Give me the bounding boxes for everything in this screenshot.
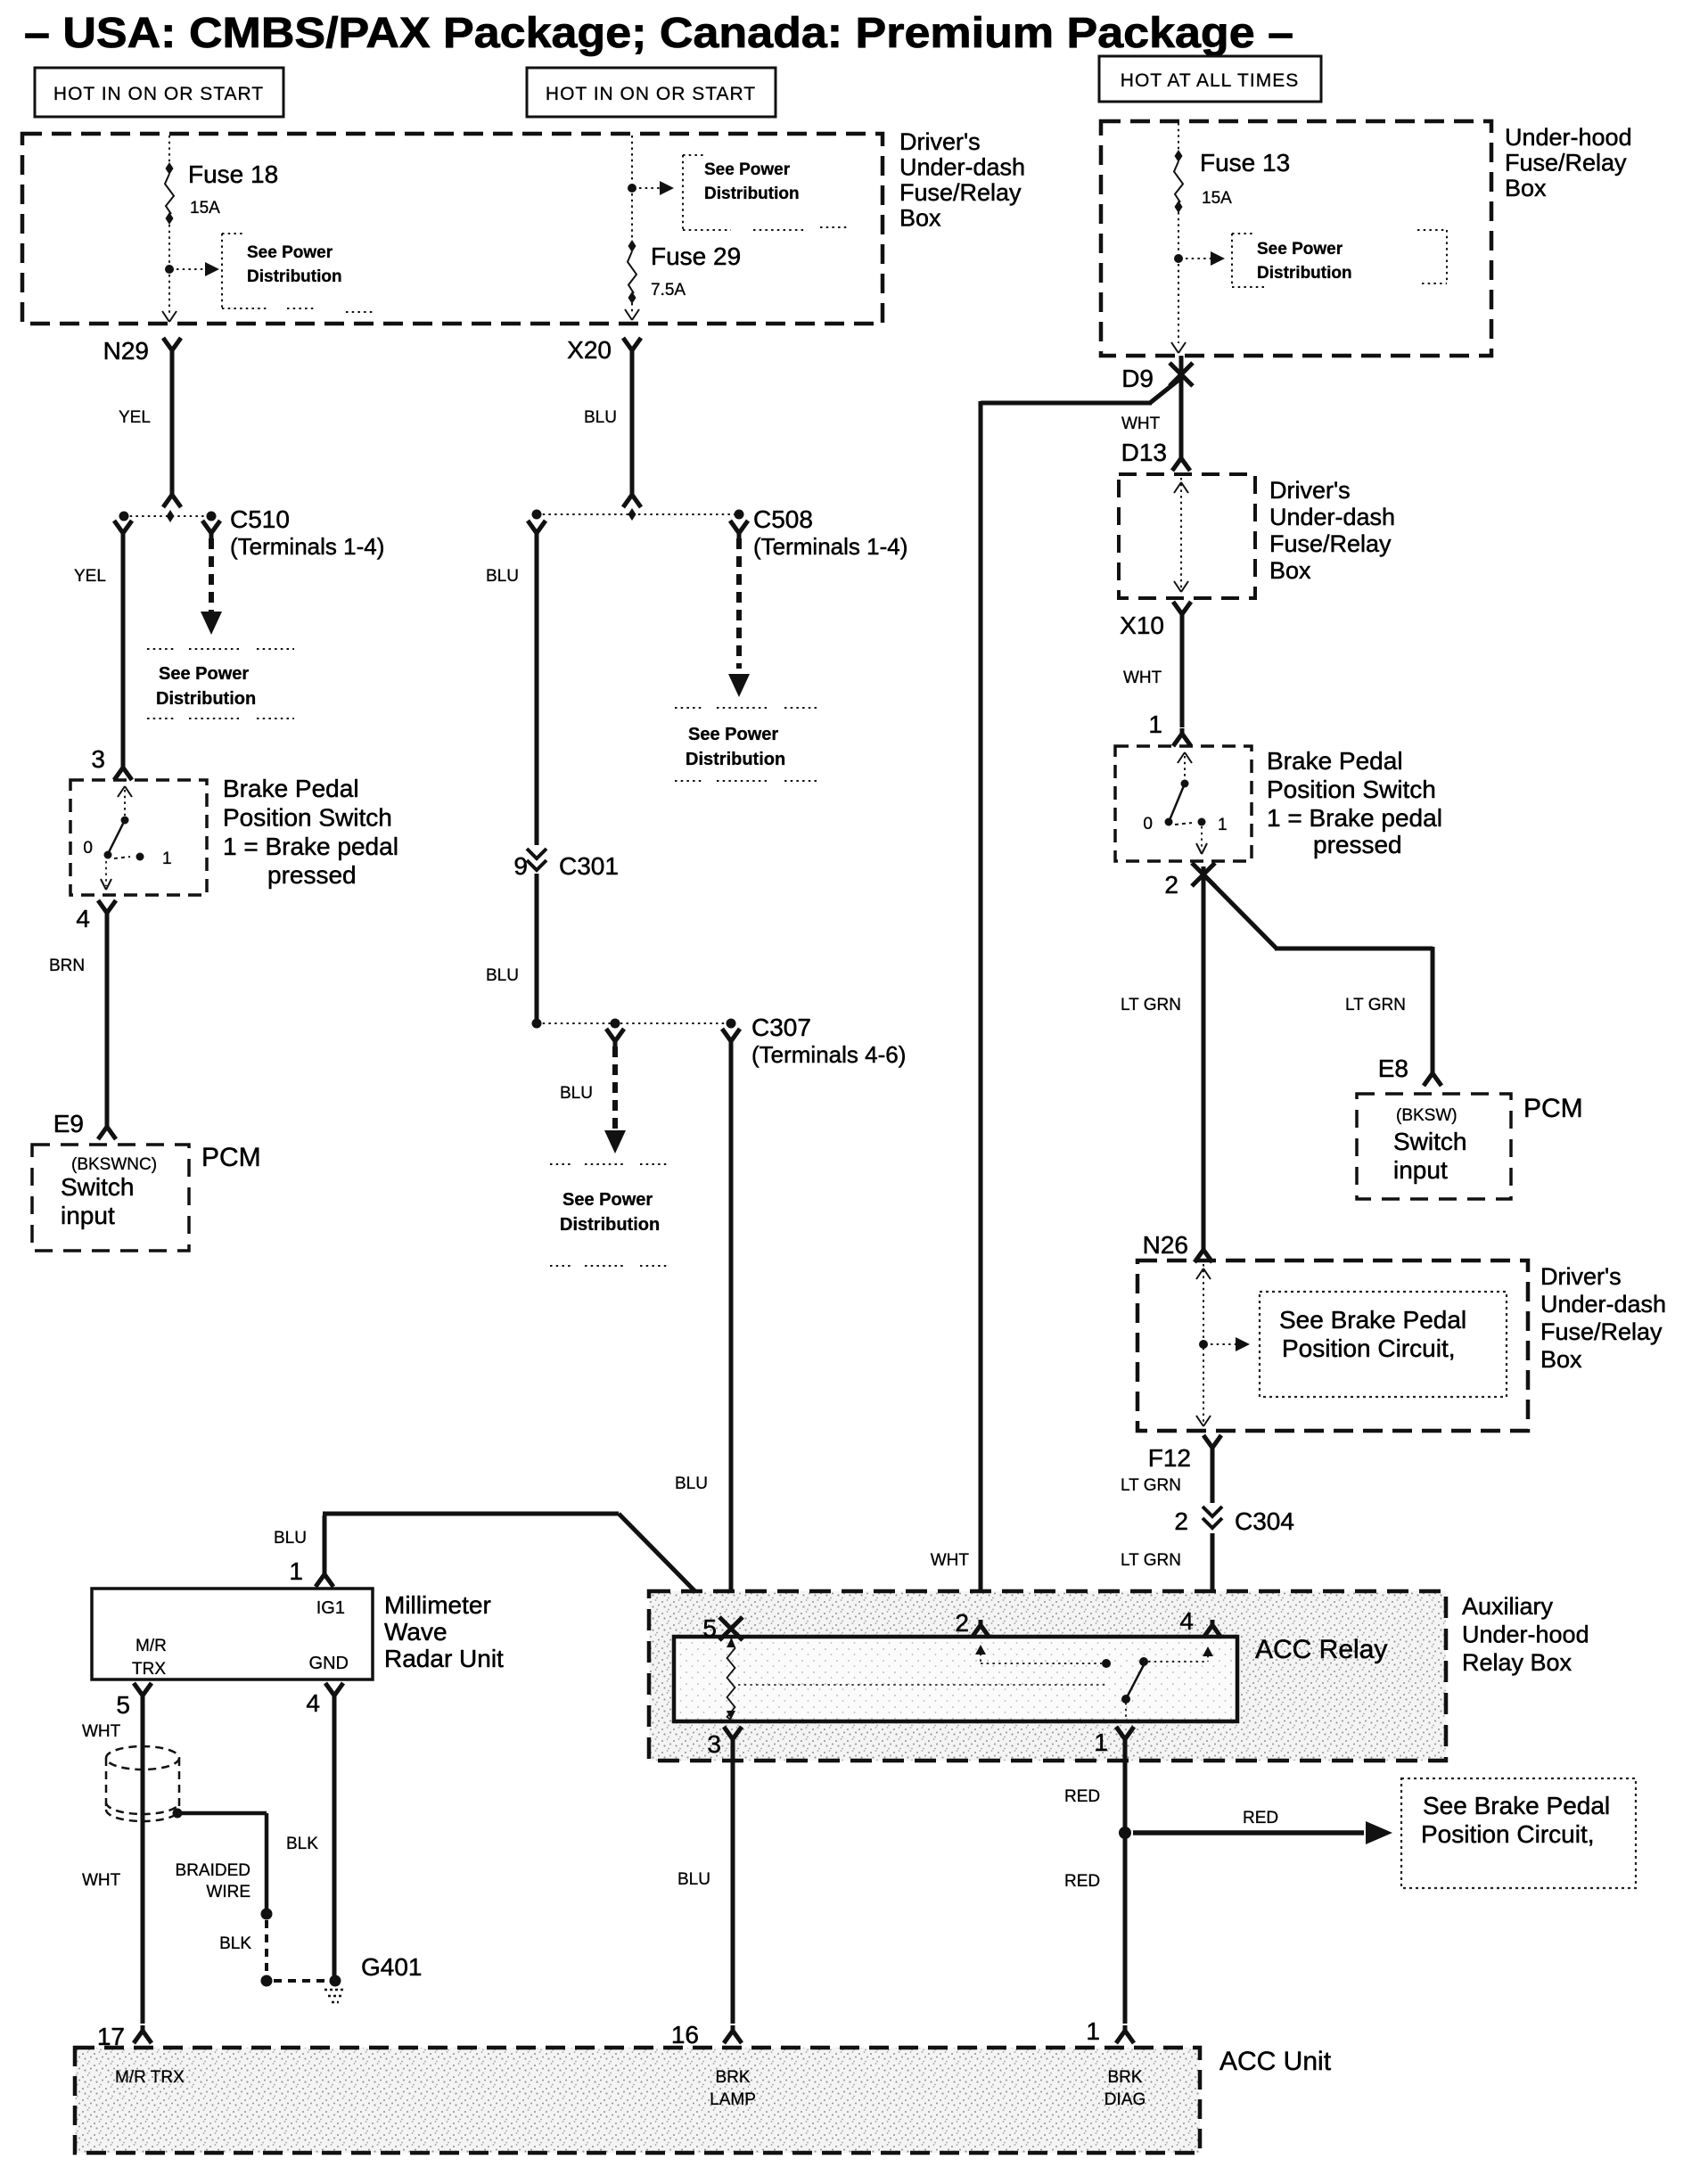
svg-text:4: 4 (76, 905, 90, 932)
svg-text:C508: C508 (753, 505, 813, 533)
svg-text:E8: E8 (1378, 1055, 1408, 1082)
svg-text:2: 2 (955, 1609, 969, 1637)
svg-text:RED: RED (1064, 1872, 1100, 1891)
svg-text:See Power: See Power (247, 243, 333, 262)
svg-text:X10: X10 (1120, 612, 1164, 639)
svg-text:Distribution: Distribution (156, 689, 256, 709)
svg-text:Under-dash: Under-dash (899, 154, 1025, 181)
svg-text:ACC Relay: ACC Relay (1255, 1635, 1387, 1664)
svg-text:BRAIDED: BRAIDED (176, 1861, 250, 1880)
svg-text:YEL: YEL (74, 567, 106, 586)
svg-text:Position Switch: Position Switch (223, 804, 392, 832)
svg-text:LT GRN: LT GRN (1345, 996, 1406, 1014)
svg-text:C510: C510 (230, 505, 290, 533)
svg-text:Brake Pedal: Brake Pedal (223, 775, 359, 802)
svg-text:5: 5 (702, 1614, 717, 1642)
svg-text:See Power: See Power (159, 664, 249, 684)
svg-text:BLU: BLU (584, 408, 617, 427)
svg-text:9: 9 (513, 852, 528, 880)
svg-text:WIRE: WIRE (206, 1883, 250, 1901)
svg-text:Distribution: Distribution (1257, 264, 1352, 283)
svg-text:LT GRN: LT GRN (1121, 996, 1181, 1014)
svg-text:Radar Unit: Radar Unit (384, 1645, 504, 1672)
svg-text:LT GRN: LT GRN (1121, 1551, 1181, 1570)
svg-text:RED: RED (1243, 1809, 1278, 1827)
svg-text:Position Circuit,: Position Circuit, (1421, 1820, 1595, 1848)
svg-text:BLU: BLU (677, 1870, 710, 1889)
svg-text:(BKSWNC): (BKSWNC) (71, 1155, 157, 1174)
svg-text:Box: Box (1505, 175, 1547, 201)
svg-text:Fuse 29: Fuse 29 (651, 242, 741, 270)
svg-text:BLU: BLU (486, 966, 519, 985)
svg-text:15A: 15A (1202, 189, 1232, 208)
svg-text:pressed: pressed (267, 861, 357, 889)
svg-text:Fuse/Relay: Fuse/Relay (1269, 530, 1392, 557)
svg-text:PCM: PCM (201, 1143, 261, 1172)
svg-text:HOT IN ON OR START: HOT IN ON OR START (53, 84, 264, 104)
svg-text:ACC Unit: ACC Unit (1219, 2047, 1332, 2076)
svg-text:Under-hood: Under-hood (1505, 124, 1632, 151)
svg-text:See Power: See Power (562, 1190, 653, 1210)
svg-text:Fuse/Relay: Fuse/Relay (1540, 1318, 1663, 1345)
svg-text:Distribution: Distribution (686, 750, 785, 769)
svg-text:C307: C307 (751, 1014, 811, 1041)
svg-text:C304: C304 (1235, 1507, 1294, 1535)
svg-text:RED: RED (1064, 1787, 1100, 1806)
svg-text:See Power: See Power (688, 725, 778, 744)
svg-text:See Power: See Power (704, 160, 791, 179)
svg-text:15A: 15A (190, 199, 220, 218)
svg-text:5: 5 (116, 1691, 130, 1719)
svg-text:HOT AT ALL TIMES: HOT AT ALL TIMES (1121, 70, 1299, 91)
svg-text:WHT: WHT (82, 1722, 121, 1741)
svg-text:Switch: Switch (61, 1173, 134, 1201)
svg-text:BRK: BRK (715, 2068, 750, 2087)
svg-text:G401: G401 (361, 1953, 423, 1981)
svg-text:Brake Pedal: Brake Pedal (1267, 747, 1403, 775)
svg-text:1: 1 (1148, 710, 1162, 738)
svg-text:1 = Brake pedal: 1 = Brake pedal (1267, 804, 1442, 832)
svg-text:(BKSW): (BKSW) (1396, 1106, 1458, 1125)
svg-text:Under-dash: Under-dash (1269, 504, 1395, 530)
svg-text:N26: N26 (1143, 1231, 1188, 1259)
svg-text:WHT: WHT (82, 1871, 121, 1890)
svg-text:Position Circuit,: Position Circuit, (1282, 1334, 1456, 1362)
svg-text:1: 1 (289, 1557, 303, 1585)
svg-text:Distribution: Distribution (247, 267, 342, 286)
svg-text:TRX: TRX (132, 1660, 166, 1679)
svg-text:PCM: PCM (1523, 1094, 1583, 1123)
svg-text:See Brake Pedal: See Brake Pedal (1423, 1792, 1610, 1819)
svg-text:Driver's: Driver's (899, 128, 981, 155)
svg-text:N29: N29 (103, 337, 149, 365)
svg-text:Wave: Wave (384, 1618, 448, 1646)
svg-text:WHT: WHT (931, 1551, 970, 1570)
svg-text:4: 4 (306, 1689, 320, 1717)
svg-text:X20: X20 (567, 336, 612, 364)
svg-text:– USA: CMBS/PAX Package; Canad: – USA: CMBS/PAX Package; Canada: Premium… (24, 10, 1293, 57)
svg-text:BLK: BLK (219, 1934, 251, 1953)
svg-text:BLU: BLU (675, 1474, 708, 1493)
svg-text:M/R TRX: M/R TRX (115, 2068, 185, 2087)
svg-text:See Brake Pedal: See Brake Pedal (1279, 1306, 1466, 1334)
svg-text:Switch: Switch (1393, 1128, 1466, 1155)
svg-text:0: 0 (1143, 815, 1153, 833)
svg-text:WHT: WHT (1123, 669, 1162, 687)
svg-text:BLU: BLU (486, 567, 519, 586)
svg-text:Fuse/Relay: Fuse/Relay (899, 179, 1022, 206)
svg-text:0: 0 (83, 839, 93, 858)
svg-text:3: 3 (707, 1730, 721, 1758)
svg-text:Fuse 18: Fuse 18 (188, 160, 278, 188)
svg-text:BRK: BRK (1107, 2068, 1142, 2087)
svg-text:input: input (1393, 1156, 1448, 1184)
svg-text:D9: D9 (1121, 365, 1154, 392)
svg-text:Under-dash: Under-dash (1540, 1291, 1666, 1318)
svg-text:1: 1 (1094, 1728, 1108, 1756)
svg-text:1: 1 (162, 850, 172, 868)
svg-text:1: 1 (1218, 816, 1228, 834)
svg-text:1 = Brake pedal: 1 = Brake pedal (223, 833, 398, 860)
svg-text:(Terminals 1-4): (Terminals 1-4) (230, 533, 384, 560)
svg-text:DIAG: DIAG (1104, 2090, 1146, 2109)
svg-text:(Terminals 4-6): (Terminals 4-6) (751, 1041, 906, 1068)
svg-text:M/R: M/R (135, 1637, 167, 1655)
svg-text:Driver's: Driver's (1540, 1263, 1622, 1290)
svg-text:IG1: IG1 (316, 1598, 345, 1618)
svg-text:C301: C301 (559, 852, 619, 880)
svg-text:Position Switch: Position Switch (1267, 776, 1436, 803)
svg-text:BLU: BLU (274, 1529, 307, 1548)
svg-text:Driver's: Driver's (1269, 477, 1351, 504)
svg-text:LT GRN: LT GRN (1121, 1476, 1181, 1495)
svg-text:Under-hood: Under-hood (1462, 1622, 1589, 1648)
svg-text:GND: GND (309, 1654, 349, 1673)
svg-text:See Power: See Power (1257, 240, 1343, 259)
svg-text:WHT: WHT (1121, 415, 1161, 433)
svg-text:F12: F12 (1148, 1444, 1191, 1472)
svg-text:1: 1 (1086, 2017, 1100, 2045)
svg-text:4: 4 (1179, 1607, 1194, 1635)
svg-text:Millimeter: Millimeter (384, 1591, 491, 1619)
svg-text:BRN: BRN (49, 957, 85, 975)
svg-text:2: 2 (1164, 871, 1178, 899)
svg-text:BLU: BLU (560, 1084, 593, 1103)
svg-text:(Terminals 1-4): (Terminals 1-4) (753, 533, 907, 560)
svg-text:Distribution: Distribution (560, 1215, 660, 1235)
svg-text:Auxiliary: Auxiliary (1462, 1593, 1554, 1620)
svg-text:Box: Box (899, 205, 941, 232)
svg-text:BLK: BLK (286, 1835, 318, 1853)
svg-text:Relay Box: Relay Box (1462, 1649, 1573, 1676)
svg-text:HOT IN ON OR START: HOT IN ON OR START (546, 84, 756, 104)
svg-text:Fuse 13: Fuse 13 (1200, 149, 1290, 177)
svg-text:YEL: YEL (119, 408, 151, 427)
svg-text:Fuse/Relay: Fuse/Relay (1505, 150, 1627, 177)
svg-text:Box: Box (1269, 557, 1311, 584)
svg-text:2: 2 (1174, 1507, 1188, 1535)
svg-text:7.5A: 7.5A (651, 281, 686, 300)
svg-text:D13: D13 (1121, 439, 1167, 466)
svg-text:pressed: pressed (1313, 831, 1402, 858)
svg-text:input: input (61, 1202, 115, 1229)
svg-text:Box: Box (1540, 1346, 1582, 1373)
svg-text:16: 16 (671, 2021, 699, 2049)
svg-text:LAMP: LAMP (710, 2090, 756, 2109)
svg-text:Distribution: Distribution (704, 185, 800, 203)
svg-text:3: 3 (91, 745, 105, 773)
svg-text:E9: E9 (53, 1110, 84, 1137)
